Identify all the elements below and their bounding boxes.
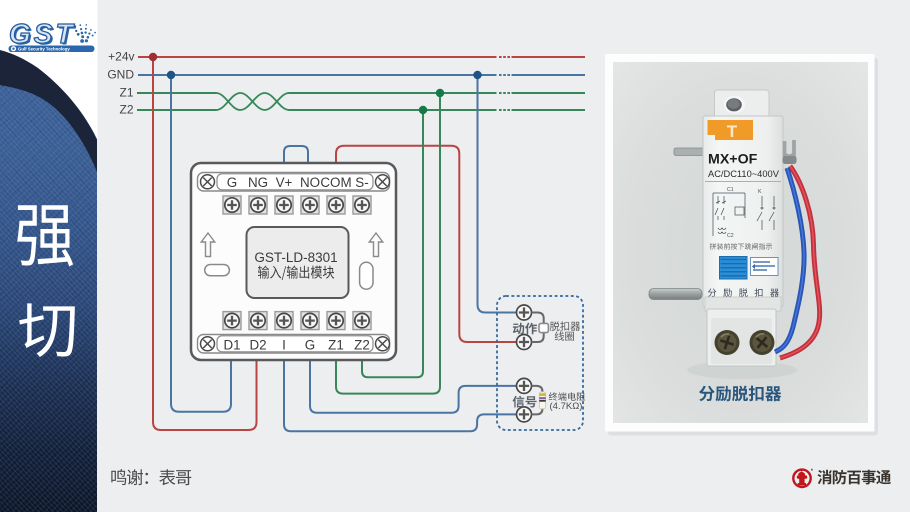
signal terminal screw lower xyxy=(517,407,532,422)
device tiny caption line xyxy=(710,243,772,250)
wire module Z2 to Z2 bus xyxy=(362,110,423,377)
wire GND to module terminal D1 xyxy=(171,75,231,412)
module corner screw top-right xyxy=(376,175,390,189)
module corner screw bottom-right xyxy=(376,337,390,351)
svg-text:AC/DC110~400V: AC/DC110~400V xyxy=(708,169,780,179)
device left pin upper xyxy=(674,148,704,156)
signal terminal screw upper xyxy=(517,378,532,393)
junction dot GND right xyxy=(473,71,481,79)
device body text 分励脱扣器 xyxy=(708,288,779,297)
svg-text:MX+OF: MX+OF xyxy=(708,152,758,168)
action terminal screw lower xyxy=(517,335,532,350)
svg-text:C1: C1 xyxy=(727,187,734,193)
footer logo fire icon xyxy=(793,469,812,487)
svg-text:Z2: Z2 xyxy=(119,102,133,116)
wire module Z1 to Z1 bus xyxy=(336,93,440,394)
terminal labels D1 D2 I G Z1 Z2 xyxy=(223,338,369,353)
sidebar title 强 xyxy=(17,205,73,266)
module bottom screw terminals row xyxy=(223,312,371,330)
device body xyxy=(703,116,783,307)
net label GND xyxy=(107,68,134,82)
module center label plate xyxy=(247,227,349,298)
label 信号 (signal) xyxy=(513,396,537,408)
dashed boundary box of shunt trip unit xyxy=(497,296,583,430)
svg-text:K: K xyxy=(758,189,762,195)
module LED window right pill xyxy=(360,262,373,289)
svg-text:T: T xyxy=(727,122,738,141)
footer logo text 消防百事通 xyxy=(817,470,891,485)
svg-text:D1: D1 xyxy=(223,338,240,353)
trip coil bracket wire xyxy=(532,313,544,343)
GST logo banner xyxy=(9,46,95,53)
module LED window left pill xyxy=(205,265,230,276)
sidebar title 切 xyxy=(19,303,75,357)
svg-text:V+: V+ xyxy=(276,175,293,190)
junction dot Z1 xyxy=(436,89,444,97)
GST logo text xyxy=(9,18,77,51)
wire +24v to module terminal D2 xyxy=(153,57,257,430)
device blue wire xyxy=(775,168,804,352)
sidebar background texture xyxy=(0,0,97,512)
wire jumper V+ to NO xyxy=(284,146,308,163)
module bottom terminal label strip D1 D2 I G Z1 Z2 xyxy=(198,335,390,354)
device orange T label xyxy=(708,120,754,141)
svg-text:I: I xyxy=(282,338,286,353)
device terminal screw left xyxy=(715,330,740,355)
wire GND bus xyxy=(138,74,585,76)
wire +24v power bus xyxy=(138,56,585,58)
module orientation arrow left xyxy=(201,233,215,257)
device fork terminal top right xyxy=(783,140,797,164)
resistor 4.7K terminating resistor symbol xyxy=(539,392,545,409)
svg-text:NG: NG xyxy=(248,175,268,190)
module corner screw top-left xyxy=(201,175,215,189)
svg-text:GST: GST xyxy=(9,18,76,49)
device terminal block xyxy=(705,297,781,366)
sidebar white top area xyxy=(0,0,98,140)
svg-text:NO: NO xyxy=(300,175,320,190)
label 动作 (action) xyxy=(513,323,537,335)
svg-text:S-: S- xyxy=(355,175,368,190)
net label Z1 xyxy=(119,85,133,99)
net label Z2 xyxy=(119,102,133,116)
svg-text:Z1: Z1 xyxy=(119,85,133,99)
GST logo dot swoosh xyxy=(73,24,96,43)
device blue reset slider xyxy=(720,257,748,280)
terminating resistor bracket wire xyxy=(532,386,543,415)
module top screw terminals row xyxy=(223,196,371,214)
device text MX+OF xyxy=(708,152,758,168)
module corner screw bottom-left xyxy=(201,337,215,351)
device printed schematic xyxy=(713,187,775,239)
sidebar navy curve band xyxy=(0,50,97,172)
terminal labels G NG V+ NO COM S- xyxy=(227,175,369,190)
wire Z2 bus xyxy=(137,109,585,111)
device red wire xyxy=(780,166,820,358)
svg-text:GND: GND xyxy=(107,68,134,82)
module name text GST-LD-8301 xyxy=(254,250,337,265)
device text AC/DC110~400V xyxy=(708,169,780,179)
svg-text:C2: C2 xyxy=(727,233,734,239)
svg-text:Gulf Security Technology: Gulf Security Technology xyxy=(18,47,70,52)
label 脱扣器线圈 (trip coil) xyxy=(550,321,580,341)
wire module G to signal upper screw xyxy=(310,360,517,413)
trip coil symbol xyxy=(539,323,548,332)
credit text 鸣谢：表哥 xyxy=(111,469,191,485)
wire COM to trip terminal (action lower screw) xyxy=(336,146,517,342)
junction dot Z2 xyxy=(419,106,427,114)
svg-text:(4.7KΩ): (4.7KΩ) xyxy=(550,401,583,412)
wire module I to signal lower screw xyxy=(284,360,517,431)
junction dot +24v xyxy=(149,53,157,61)
device terminal screw right xyxy=(750,330,775,355)
net label +24v xyxy=(108,49,134,63)
action terminal screw upper xyxy=(517,305,532,320)
photo caption 分励脱扣器 xyxy=(699,386,781,402)
wire Z1 bus with twisted pair section xyxy=(137,93,585,110)
module GST-LD-8301 body xyxy=(191,163,396,360)
svg-text:Z2: Z2 xyxy=(354,338,370,353)
svg-text:Z1: Z1 xyxy=(328,338,344,353)
label 终端电阻 (4.7KΩ) xyxy=(549,392,585,412)
svg-text:COM: COM xyxy=(320,175,351,190)
device left pin lower xyxy=(649,289,702,300)
photo card of shunt trip device xyxy=(608,58,878,436)
device top mounting tab xyxy=(715,90,770,118)
svg-text:G: G xyxy=(227,175,237,190)
module name text 输入/输出模块 xyxy=(258,266,334,281)
device tiny blue label xyxy=(751,258,779,276)
svg-text:+24v: +24v xyxy=(108,49,134,63)
device shadow xyxy=(687,361,797,379)
svg-text:GST-LD-8301: GST-LD-8301 xyxy=(254,250,337,265)
junction dot GND left xyxy=(167,71,175,79)
module orientation arrow right xyxy=(369,233,383,257)
svg-text:G: G xyxy=(305,338,315,353)
module top terminal label strip G NG V+ NO COM S- xyxy=(198,173,390,192)
svg-text:D2: D2 xyxy=(249,338,266,353)
wire GND to trip terminal (action upper screw) xyxy=(478,75,517,313)
